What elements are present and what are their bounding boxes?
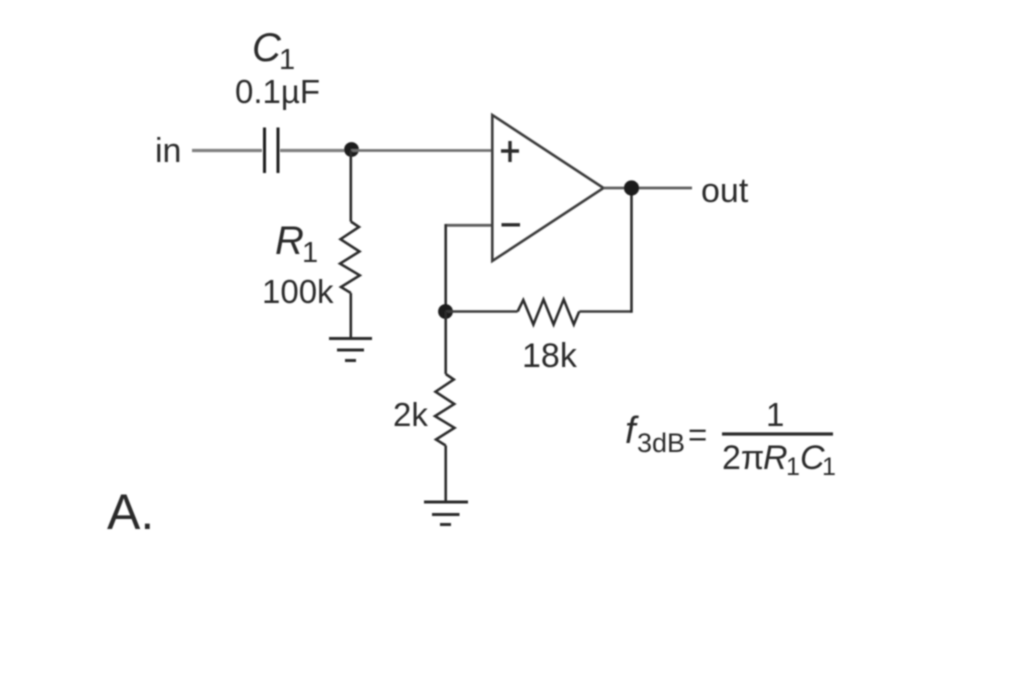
svg-text:1: 1	[279, 44, 295, 76]
resistor 2k	[435, 374, 455, 446]
capacitor C1	[265, 128, 279, 174]
resistor R1	[340, 222, 360, 294]
wire node A down to R1	[349, 151, 352, 222]
node A junction dot	[344, 142, 359, 157]
resistor 18k	[518, 300, 580, 325]
svg-text:2π: 2π	[722, 439, 764, 477]
node B junction dot	[438, 304, 453, 319]
svg-text:A.: A.	[107, 484, 154, 540]
ground under R1	[329, 339, 372, 361]
svg-text:2k: 2k	[393, 396, 428, 433]
wire capacitor to node A	[280, 149, 351, 152]
svg-text:=: =	[688, 416, 707, 453]
svg-text:1: 1	[786, 453, 800, 481]
wire into minus input	[446, 224, 491, 227]
wire output branch vertical	[630, 188, 633, 313]
wire node B to 18k	[446, 310, 518, 313]
formula fraction bar	[722, 432, 833, 435]
wire 18k to output branch	[579, 310, 631, 313]
svg-text:0.1µF: 0.1µF	[235, 73, 320, 110]
wire minus input down to node B	[444, 224, 447, 312]
wire node A to op-amp + input	[351, 149, 491, 152]
op-amp minus input marker	[502, 223, 521, 226]
ground under 2k	[424, 502, 468, 525]
svg-text:1: 1	[822, 453, 836, 481]
op-amp U1	[492, 115, 603, 261]
wire input to capacitor	[192, 149, 262, 152]
svg-text:18k: 18k	[522, 337, 578, 375]
svg-text:R: R	[763, 439, 788, 477]
wire 2k to ground	[444, 446, 447, 503]
wire op-amp output to out	[604, 187, 693, 190]
svg-text:R: R	[275, 219, 304, 263]
svg-text:C: C	[252, 26, 282, 70]
svg-text:1: 1	[766, 396, 784, 433]
svg-text:3dB: 3dB	[637, 428, 685, 458]
op-amp plus input marker	[501, 141, 519, 162]
svg-text:1: 1	[302, 237, 318, 269]
node C output junction dot	[624, 180, 639, 195]
svg-text:in: in	[155, 132, 181, 170]
svg-text:out: out	[701, 172, 749, 210]
wire node B down to 2k	[444, 312, 447, 375]
svg-text:100k: 100k	[262, 273, 334, 310]
wire R1 to ground	[349, 293, 352, 338]
